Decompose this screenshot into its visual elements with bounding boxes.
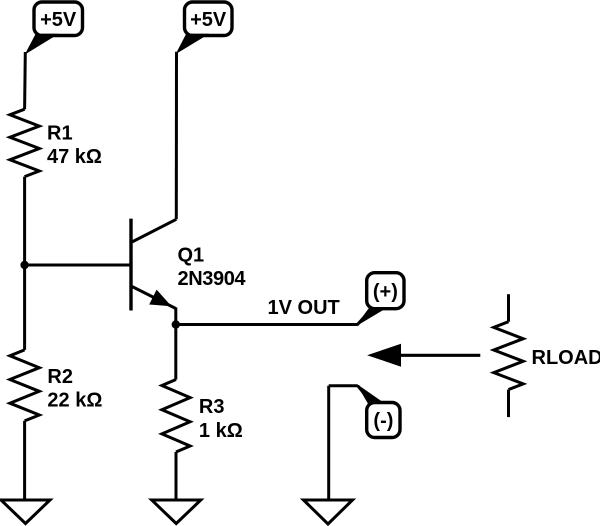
wire emitter to output node [174,308,177,325]
transistor Q1 base bar [129,219,132,311]
svg-text:+5V: +5V [190,9,227,31]
wire output node to R3 [174,325,177,380]
net flag (+) tail [357,308,386,325]
net flag (-) tail [358,385,384,403]
svg-text:RLOAD: RLOAD [532,347,600,369]
power flag +5V right (tail) [177,34,208,53]
resistor R1 (zigzag) [10,109,39,176]
wire R3 to ground [175,452,178,501]
ground (right) [304,500,353,524]
net flag (+) tail stroke [357,309,372,325]
wire base [25,264,133,267]
svg-text:1 kΩ: 1 kΩ [199,420,243,442]
power flag +5V right (box) [185,2,233,36]
wire +5V to collector [175,52,178,220]
transistor Q1 emitter arrow [151,291,169,305]
svg-text:1V OUT: 1V OUT [268,297,340,319]
svg-text:+5V: +5V [40,9,77,31]
svg-text:R1: R1 [47,123,73,145]
svg-text:Q1: Q1 [178,244,205,266]
arrow shaft [399,354,480,357]
svg-text:2N3904: 2N3904 [178,268,247,290]
wire RLOAD bottom stub [507,390,510,418]
transistor Q1 emitter stroke [130,286,176,309]
wire R1 to base node [23,177,26,265]
node emitter junction [172,320,180,328]
wire RLOAD top stub [507,294,510,322]
node base junction [20,261,28,269]
net flag (-) box [367,403,400,438]
wire (-) net horizontal [329,384,358,387]
resistor R2 (zigzag) [10,350,39,421]
resistor RLOAD (zigzag) [494,322,523,390]
net flag (-) tail stroke [358,386,371,402]
svg-text:47 kΩ: 47 kΩ [47,146,102,168]
svg-text:R2: R2 [47,366,73,388]
transistor Q1 collector stroke [130,219,176,243]
ground (left) [1,500,50,524]
wire +5V to R1 [23,52,27,109]
svg-text:(+): (+) [373,281,398,303]
wire R2 to ground [23,421,26,501]
power flag +5V left (box) [34,2,83,36]
net flag (+) box [367,273,404,309]
wire output net [176,323,357,326]
wire node to R2 [23,265,26,350]
resistor R3 (zigzag) [162,380,190,453]
svg-text:22 kΩ: 22 kΩ [47,389,102,411]
power flag +5V left (tail) [26,34,57,53]
ground (middle) [152,500,201,524]
wire (-) net vertical [327,386,330,501]
arrow pointing to load current [369,345,401,367]
svg-text:R3: R3 [199,396,225,418]
svg-text:(-): (-) [373,410,393,432]
